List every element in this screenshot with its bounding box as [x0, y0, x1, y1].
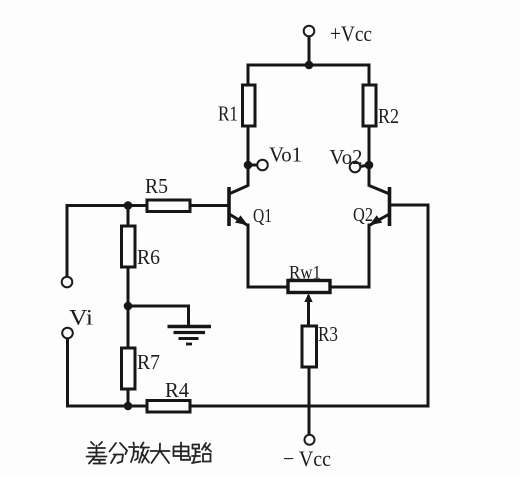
wire ground branch horizontal	[128, 305, 189, 308]
svg-text:− Vcc: − Vcc	[283, 446, 331, 471]
wire Q2 emitter down	[368, 225, 371, 287]
wire Q1 emitter to Rw1 left	[248, 286, 288, 289]
svg-text:R7: R7	[137, 350, 160, 374]
terminal -Vcc	[305, 435, 315, 445]
wire top rail	[248, 64, 369, 67]
transistor Q2	[369, 186, 390, 227]
svg-text:R4: R4	[165, 378, 189, 402]
resistor R1	[243, 85, 256, 126]
wire Q1 base row	[67, 204, 147, 207]
wire right rail	[427, 205, 430, 406]
terminal Vi bottom	[62, 328, 73, 339]
svg-text:Vo1: Vo1	[269, 143, 302, 167]
wire ground branch vertical	[187, 306, 190, 326]
transistor Q1	[229, 186, 248, 227]
大	[151, 444, 170, 464]
路	[192, 443, 211, 463]
wire left input vertical bottom	[66, 339, 69, 407]
wire bottom rail to -Vcc terminal	[308, 406, 311, 435]
分	[110, 443, 128, 463]
terminal +Vcc	[304, 26, 315, 37]
svg-text:Q1: Q1	[253, 205, 272, 227]
wire top rail left corner down to R1	[247, 65, 250, 85]
wire R7 bottom	[127, 389, 130, 406]
terminal Vo2	[350, 162, 361, 173]
potentiometer Rw1	[288, 281, 330, 303]
wire R3 bottom to bottom rail	[308, 366, 311, 406]
放	[129, 443, 149, 463]
wire top rail right corner down to R2	[368, 65, 371, 85]
svg-text:Q2: Q2	[353, 204, 373, 226]
wire R1 bottom to Q1 collector node	[247, 126, 250, 185]
svg-text:+Vcc: +Vcc	[330, 21, 372, 46]
ground	[168, 327, 212, 345]
wire Rw1 wiper to R3	[307, 297, 310, 327]
svg-text:R5: R5	[145, 174, 168, 198]
resistor R7	[122, 348, 136, 389]
node R5/R6 junction	[124, 201, 133, 210]
terminal Vo1	[257, 160, 268, 171]
terminal Vi top	[62, 277, 73, 288]
wire R5 to Q1 base	[190, 204, 228, 207]
wire +Vcc drop to top rail	[308, 37, 311, 66]
wire bottom rail left	[68, 405, 148, 408]
wire Rw1 right to Q2 emitter	[330, 286, 369, 289]
node top rail junction	[305, 61, 314, 70]
node bottom rail junction	[124, 402, 133, 411]
svg-text:R6: R6	[137, 245, 160, 269]
node ground junction	[124, 302, 133, 311]
svg-text:Vi: Vi	[69, 305, 93, 330]
resistor R3	[302, 326, 317, 367]
svg-text:Rw1: Rw1	[289, 263, 321, 284]
resistor R4	[147, 401, 190, 413]
resistor R5	[147, 200, 190, 212]
wire R2 bottom to Q2 collector node	[368, 126, 371, 185]
label caption 差分放大电路 (drawn strokes)	[87, 442, 212, 464]
node Vo2 junction	[365, 161, 374, 170]
wire Vo1 stub	[248, 164, 257, 167]
wire R6 top	[127, 206, 130, 227]
svg-text:R1: R1	[218, 102, 238, 126]
wire R6 bottom to R7 top	[127, 267, 130, 348]
svg-text:R3: R3	[318, 322, 338, 346]
svg-text:R2: R2	[378, 104, 399, 128]
电	[174, 443, 191, 460]
resistor R6	[122, 226, 136, 267]
wire Q2 base to right rail	[390, 204, 428, 207]
wire Vo2 stub	[360, 165, 369, 167]
差	[87, 442, 107, 464]
svg-text:Vo2: Vo2	[330, 145, 363, 169]
wire bottom rail right	[190, 405, 428, 408]
resistor R2	[363, 85, 376, 126]
wire Q1 emitter down	[247, 225, 250, 287]
node Vo1 junction	[244, 161, 253, 170]
wire left input vertical top	[66, 206, 69, 277]
